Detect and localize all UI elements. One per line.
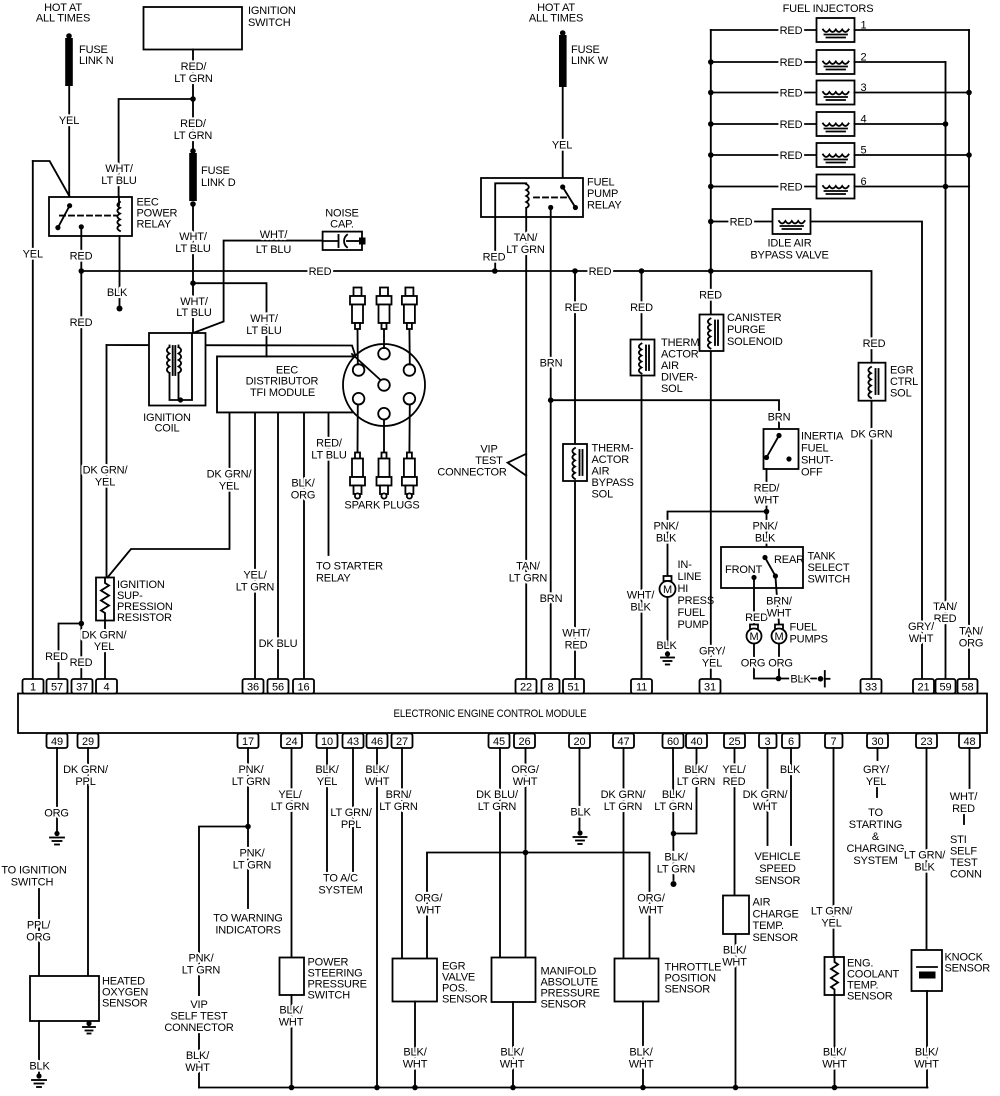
svg-text:ELECTRONIC ENGINE CONTROL MODU: ELECTRONIC ENGINE CONTROL MODULE [394,708,587,720]
svg-text:WHT: WHT [416,905,441,917]
ignition coil T101 [143,333,205,435]
svg-text:PNK/: PNK/ [239,848,265,860]
pin 48 [959,734,980,749]
svg-text:YEL: YEL [821,918,841,930]
svg-text:OFF: OFF [801,467,823,479]
svg-text:BRN: BRN [540,358,563,370]
svg-text:RED: RED [952,803,975,815]
svg-text:LT GRN/: LT GRN/ [330,807,372,819]
svg-text:SHUT-: SHUT- [801,455,834,467]
node junction ignition switch feed [190,96,196,102]
svg-text:BLK/: BLK/ [403,1047,427,1059]
fuel pump relay U103 [481,177,622,218]
svg-text:49: 49 [51,736,63,748]
wire WHT/LT BLU jog to EEC power relay coil [101,99,193,197]
svg-text:3: 3 [765,736,771,748]
svg-text:BLK: BLK [780,764,801,776]
wire BLK/WHT TPS to bus [629,1002,654,1091]
svg-text:LT BLU: LT BLU [311,450,347,462]
wire BLK/WHT ACT sensor to bus [722,934,747,1090]
svg-text:60: 60 [667,736,679,748]
svg-text:BLK/: BLK/ [823,1047,847,1059]
svg-text:48: 48 [964,736,976,748]
wire injector 3 return [855,92,970,94]
svg-text:STI: STI [950,834,967,846]
ground pin 49 [50,831,64,845]
svg-text:RED: RED [780,88,803,100]
svg-text:LT GRN: LT GRN [509,573,548,585]
svg-text:SPEED: SPEED [759,863,796,875]
wire RED injector 6 feed [708,182,817,194]
pin 36 [243,679,264,694]
svg-text:BLK/: BLK/ [629,1047,653,1059]
sensor EGR valve position [393,959,488,1006]
svg-text:RED: RED [780,57,803,69]
wire ORG front pump [741,644,779,679]
svg-text:RED: RED [309,266,332,278]
sensor air charge temp [723,896,799,945]
svg-text:FUEL: FUEL [790,622,818,634]
wire DK GRN/WHT pin 3 to VSS [743,748,789,845]
pin 4 [96,679,117,694]
svg-text:WHT: WHT [753,801,778,813]
svg-text:THERM-: THERM- [592,443,634,455]
svg-text:SENSOR: SENSOR [442,994,488,1006]
svg-text:31: 31 [704,682,716,694]
svg-text:ORG: ORG [959,638,984,650]
spark plug 2 [377,288,392,330]
svg-text:WHT/: WHT/ [105,163,134,175]
svg-text:20: 20 [574,736,586,748]
wire YEL fuse link W to fuel pump relay [552,87,572,187]
EEC power relay U101 [49,197,178,237]
wire BLK/WHT ECT sensor to bus [822,995,847,1090]
svg-text:RED: RED [565,302,588,314]
wire PNK/LT GRN to VIP self test connector [164,827,248,1088]
svg-text:WHT: WHT [639,905,664,917]
svg-text:WHT: WHT [365,776,390,788]
svg-text:33: 33 [865,682,877,694]
svg-text:CHARGING: CHARGING [846,843,904,855]
svg-text:SENSOR: SENSOR [755,875,801,887]
node junction BLK/LT GRN [671,831,677,837]
svg-text:TO WARNING: TO WARNING [213,913,282,925]
sensor knock [912,950,991,991]
fuse link N [65,33,114,86]
wire BLK/WHT pressure switch to bus [279,995,304,1090]
svg-text:VIP: VIP [190,999,207,1011]
svg-text:29: 29 [82,736,94,748]
spark plug 5 [377,453,392,499]
node junction bus at diverter feed [639,268,645,274]
svg-text:RED: RED [70,317,93,329]
svg-text:LT GRN/: LT GRN/ [904,850,946,862]
svg-text:SOL: SOL [890,388,912,400]
svg-text:EGR: EGR [890,365,914,377]
svg-text:SENSOR: SENSOR [665,984,711,996]
svg-text:TEST: TEST [950,857,978,869]
svg-text:DIVER-: DIVER- [661,372,698,384]
wire YEL fuse link N to EEC power relay [59,86,79,197]
svg-text:BLK/: BLK/ [291,478,315,490]
svg-text:LINK W: LINK W [571,55,609,67]
svg-text:BLK: BLK [107,287,128,299]
pin 6 [782,734,800,749]
svg-text:WHT: WHT [500,1059,525,1071]
svg-text:RED/: RED/ [181,61,208,73]
motor fuel pump front [747,625,762,644]
svg-text:SENSOR: SENSOR [541,999,587,1011]
wire RED injector 2 feed [708,57,817,69]
pin 21 [913,679,934,694]
svg-text:RED/: RED/ [180,118,207,130]
wire GRY/WHT idle air to pin 21 [811,222,936,680]
sensor manifold absolute pressure [492,958,600,1011]
pin 40 [686,734,707,749]
TFI module box U102 [217,356,355,412]
svg-text:BLK: BLK [29,1061,50,1073]
svg-text:FUSE: FUSE [201,165,230,177]
pin 20 [569,734,590,749]
node TO IGNITION SWITCH [1,865,67,889]
node junction RED at bus [79,268,85,274]
svg-text:PPL/: PPL/ [27,920,51,932]
node junction RED/WHT [764,509,770,515]
svg-text:47: 47 [618,736,630,748]
distributor cap [343,344,425,426]
node junction bus at injector bus [708,268,714,274]
svg-text:27: 27 [396,736,408,748]
svg-text:51: 51 [568,682,580,694]
svg-text:FUEL: FUEL [587,177,615,189]
node junction PNK/LT GRN [245,824,251,830]
wire YEL/LT GRN TFI to pin 36 [236,413,275,680]
svg-text:DK BLU/: DK BLU/ [476,789,519,801]
wire RED bus to diverter sol to pin 11 [627,271,656,679]
node HOT AT ALL TIMES (left) [36,2,90,25]
svg-text:59: 59 [940,682,952,694]
wire RED/LT GRN ignition switch down [174,50,213,152]
svg-text:AIR: AIR [661,360,679,372]
ignition switch [144,5,296,50]
svg-text:SENSOR: SENSOR [753,932,799,944]
svg-text:LINK N: LINK N [79,55,114,67]
svg-text:VIP: VIP [480,444,497,456]
svg-text:RED: RED [483,252,506,264]
svg-text:BLK: BLK [790,674,811,686]
wire TAN/RED injectors 2-4-6 to pin 59 [933,62,958,679]
svg-text:LT BLU: LT BLU [256,244,292,256]
svg-text:BLK/: BLK/ [723,945,747,957]
sensor engine coolant temp [825,957,900,1003]
node junction BRN [548,397,554,403]
svg-text:ORG: ORG [44,808,69,820]
wire injector 4 return [855,123,946,125]
pin 11 [631,679,652,694]
wire ORG pin 49 to ground [44,748,69,831]
svg-text:VEHICLE: VEHICLE [754,851,800,863]
svg-text:CTRL: CTRL [890,376,918,388]
connector VIP test tap [437,444,526,479]
svg-text:LT GRN: LT GRN [271,801,310,813]
solenoid canister purge [700,312,783,351]
svg-text:RED/: RED/ [754,483,781,495]
wire BLK/WHT EGR sensor to bus [403,1002,428,1091]
svg-text:RED: RED [934,613,957,625]
node junction bus at thermactor bypass feed [572,268,578,274]
sensor throttle position [615,959,722,1002]
pin 23 [916,734,937,749]
wire RED/WHT inertia to tank select [754,469,781,547]
svg-text:SWITCH: SWITCH [248,17,291,29]
svg-text:DK GRN/: DK GRN/ [207,469,253,481]
svg-text:INDICATORS: INDICATORS [215,925,280,937]
wire LT GRN/PPL pin 43 to AC system [330,748,372,871]
svg-text:WHT: WHT [822,1059,847,1071]
svg-text:GRY/: GRY/ [908,621,935,633]
svg-text:TEST: TEST [475,455,503,467]
wire injector supply bus [710,30,712,271]
ground oxygen sensor case [83,1021,95,1034]
svg-text:DK GRN/: DK GRN/ [743,789,789,801]
svg-text:DK GRN/: DK GRN/ [83,465,129,477]
svg-text:PUMP: PUMP [678,619,709,631]
svg-text:LT GRN: LT GRN [657,864,696,876]
svg-text:TO A/C: TO A/C [323,873,358,885]
svg-text:LT GRN: LT GRN [654,801,693,813]
svg-text:M: M [774,631,783,643]
wire RED tank switch to front pump [745,578,768,625]
svg-text:REAR: REAR [774,554,804,566]
svg-text:ORG: ORG [291,490,316,502]
svg-text:BLK: BLK [656,640,677,652]
svg-text:STARTING: STARTING [849,819,902,831]
svg-text:WHT: WHT [909,633,934,645]
svg-text:BRN: BRN [768,412,791,424]
wire RED relay output to pin 37 [70,227,93,679]
pin 8 [542,679,560,694]
pin 59 [936,679,956,694]
pin 58 [958,679,978,694]
svg-text:WHT/: WHT/ [179,231,208,243]
wire BLK pin 20 to ground [570,748,591,831]
svg-text:TAN/: TAN/ [959,626,984,638]
noise capacitor [323,208,366,251]
svg-text:RED: RED [70,251,93,263]
pin 57 [47,679,68,694]
svg-text:LT GRN: LT GRN [379,801,418,813]
pin 29 [78,734,99,749]
svg-text:SWITCH: SWITCH [808,574,851,586]
spark plug 6 [402,453,417,499]
wire WHT/LT BLU fuse link D down [175,204,211,283]
wire TAN/ORG injectors 1-3-5 to pin 58 [959,30,984,679]
wire RED bus corner to EGR sol to pin 33 [851,338,893,679]
svg-text:23: 23 [921,736,933,748]
svg-text:WHT/: WHT/ [562,628,591,640]
svg-text:CHARGE: CHARGE [753,909,799,921]
svg-text:BLK/: BLK/ [365,764,389,776]
svg-text:LINK D: LINK D [201,177,236,189]
svg-text:GRY/: GRY/ [863,764,890,776]
svg-text:45: 45 [493,736,505,748]
svg-text:RELAY: RELAY [137,219,172,231]
svg-text:ORG: ORG [26,932,51,944]
wire RED bus to thermactor bypass sol to pin 51 [562,271,591,679]
pin 26 [514,734,535,749]
svg-text:BYPASS VALVE: BYPASS VALVE [750,250,828,262]
svg-text:CONN: CONN [950,869,982,881]
wire injector 5 return [855,154,970,156]
spark plug 4 [350,453,365,499]
wire RED idle air feed [708,217,773,229]
wire DK GRN/LT GRN pin 47 to TPS [601,748,647,959]
svg-text:SELF: SELF [950,846,977,858]
wire BRN relay to pin 8 [540,208,563,680]
node TO A/C SYSTEM [318,873,362,897]
svg-text:BLK/: BLK/ [662,789,686,801]
svg-text:AIR: AIR [592,466,610,478]
svg-text:YEL: YEL [552,140,572,152]
wire BLK/WHT pin 46 to bus [365,748,390,1090]
wire PNK/BLK to in-line pump [653,512,766,577]
svg-text:SYSTEM: SYSTEM [853,855,897,867]
pin 25 [724,734,745,749]
fuse link D [189,148,236,207]
fuel injector 6 [817,175,867,199]
svg-text:BLK/: BLK/ [915,1047,939,1059]
svg-text:YEL: YEL [317,776,337,788]
svg-text:11: 11 [636,682,647,694]
svg-text:FUEL: FUEL [678,607,706,619]
svg-text:BYPASS: BYPASS [592,477,634,489]
svg-text:RED: RED [630,302,653,314]
svg-text:TAN/: TAN/ [933,601,958,613]
ground oxygen sensor BLK [32,1073,46,1087]
fuel injector 1 [817,18,867,42]
svg-text:24: 24 [286,736,298,748]
svg-text:YEL: YEL [702,658,722,670]
spark plug wires bottom [357,405,359,453]
svg-text:FUEL INJECTORS: FUEL INJECTORS [783,3,874,15]
svg-text:4: 4 [104,682,110,694]
svg-text:BLK/: BLK/ [500,1047,524,1059]
svg-text:58: 58 [962,682,974,694]
pin 7 [825,734,843,749]
svg-text:M: M [749,631,758,643]
ground pin 20 [574,830,587,844]
svg-text:ORG: ORG [768,658,793,670]
pin 33 [861,679,882,694]
wire PNK/LT GRN pin 17 [232,748,272,908]
svg-text:GRY/: GRY/ [699,646,726,658]
wire BLK pin 6 to VSS [780,748,801,845]
svg-text:RED: RED [699,290,722,302]
svg-text:DK GRN: DK GRN [851,429,893,441]
svg-text:SOL: SOL [592,489,614,501]
svg-text:WHT: WHT [914,1059,939,1071]
svg-text:COIL: COIL [154,423,179,435]
svg-text:BLK/: BLK/ [664,852,688,864]
wire BLK relay coil ground stub [107,197,128,312]
svg-text:RED: RED [780,25,803,37]
wire RED injector 5 feed [708,150,817,162]
connector STI self test [950,834,982,881]
svg-text:IN-: IN- [678,559,693,571]
svg-text:ORG: ORG [741,658,766,670]
svg-text:BLK: BLK [570,807,591,819]
svg-text:DISTRIBUTOR: DISTRIBUTOR [246,376,319,388]
pin 24 [281,734,302,749]
svg-text:BRN/: BRN/ [386,789,413,801]
wire YEL/LT GRN pin 24 to pressure switch [271,748,310,958]
svg-text:30: 30 [872,736,884,748]
wire RED/LT GRN to fuse link D [174,118,213,142]
resistor ignition suppression [96,578,173,625]
wire ORG/WHT pin 26 [511,748,540,958]
svg-text:WHT: WHT [513,776,538,788]
svg-text:BLK: BLK [656,533,677,545]
svg-text:ORG/: ORG/ [637,893,666,905]
wire BLK oxygen sensor to ground [29,1021,50,1073]
svg-text:YEL/: YEL/ [243,570,267,582]
wire coil primary to resistor [83,345,129,577]
svg-text:YEL/: YEL/ [722,764,746,776]
wire RED injector 3 feed [708,88,817,100]
svg-text:YEL: YEL [866,776,886,788]
spark plug wires top [357,329,359,365]
tank select switch [721,547,850,588]
svg-text:ORG/: ORG/ [415,893,444,905]
wire BLK to connector [779,674,817,686]
wire DK BLU TFI to pin 56 [259,413,298,680]
wire BLK pump to ground [656,597,677,652]
spark plug 1 [350,288,365,330]
wire DK BLU/LT GRN pin 45 to MAP sensor [476,748,519,958]
wire YEL/RED pin 25 to ACT sensor [722,748,746,896]
svg-text:RED: RED [723,776,746,788]
svg-text:RED: RED [745,612,768,624]
pin 37 [72,679,93,694]
svg-text:SENSOR: SENSOR [847,991,893,1003]
wire RED main bus [81,266,871,363]
node junction ORG/BLK [776,676,782,682]
wire PNK/BLK to tank select switch [752,521,778,545]
wire WHT/LT BLU junction to ignition coil [176,283,212,333]
node TO STARTING AND CHARGING SYSTEM [846,807,904,867]
svg-text:RED: RED [70,657,93,669]
wire DK GRN/YEL resistor to pin 4 [82,621,128,680]
wire YEL left branch to pin 1 [23,161,70,679]
wire RED/LT BLU TFI to starter relay [311,413,383,585]
wire BLK/WHT MAP sensor to bus [500,1002,525,1090]
svg-text:SOLENOID: SOLENOID [727,336,783,348]
solenoid thermactor air bypass [563,443,634,501]
svg-text:WHT: WHT [279,1017,304,1029]
svg-text:LT GRN: LT GRN [174,73,213,85]
sensor heated oxygen [30,976,148,1022]
svg-text:16: 16 [298,682,310,694]
fuel injector 4 [817,112,867,136]
svg-text:ACTOR: ACTOR [592,454,630,466]
svg-text:THERM-: THERM- [661,337,703,349]
svg-text:TAN/: TAN/ [514,232,539,244]
pin 3 [759,734,777,749]
pin 22 [516,679,537,694]
svg-text:LT GRN: LT GRN [233,860,272,872]
svg-text:IDLE AIR: IDLE AIR [767,238,811,250]
svg-text:RED: RED [730,217,753,229]
